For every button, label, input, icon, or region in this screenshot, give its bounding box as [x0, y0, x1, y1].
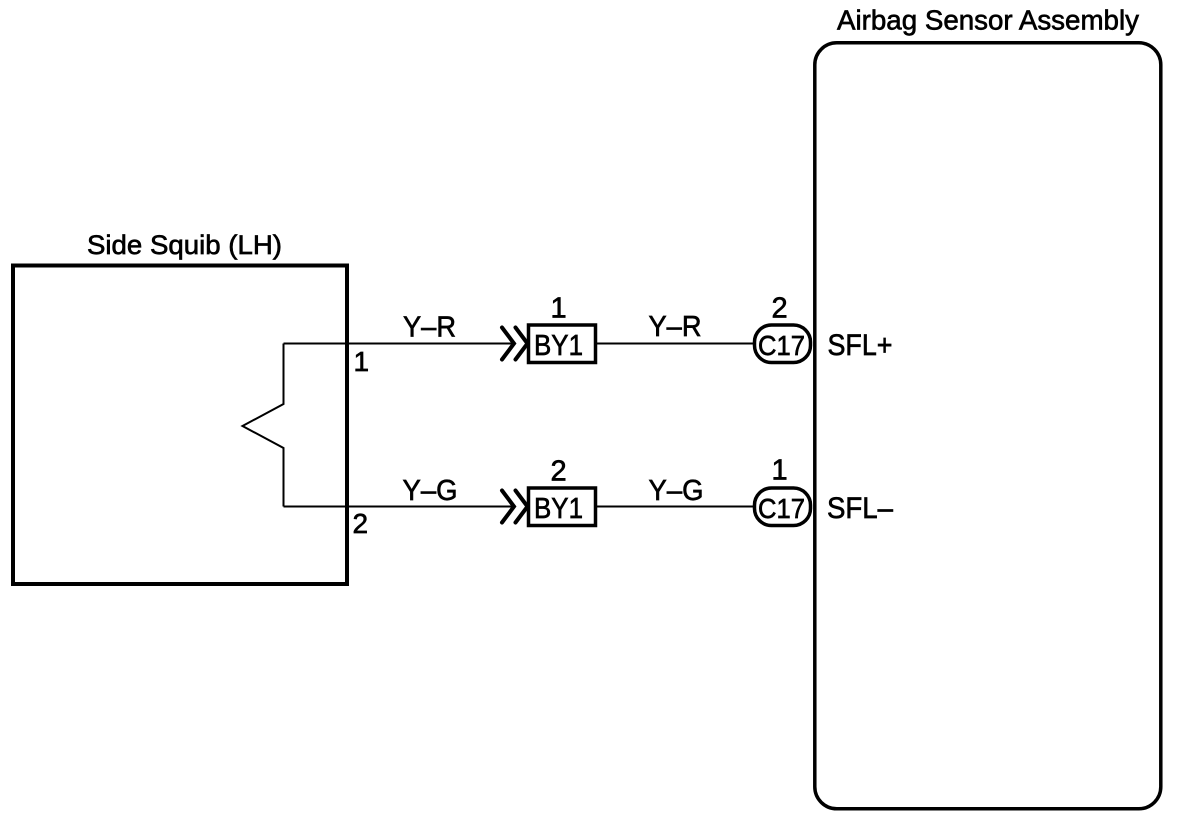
svg-text:Y–G: Y–G	[403, 475, 458, 507]
svg-text:BY1: BY1	[534, 330, 583, 362]
svg-text:SFL+: SFL+	[828, 329, 893, 362]
svg-text:BY1: BY1	[534, 493, 583, 525]
svg-text:Side Squib (LH): Side Squib (LH)	[87, 230, 282, 260]
svg-text:1: 1	[772, 455, 788, 487]
svg-text:1: 1	[354, 346, 370, 377]
svg-text:C17: C17	[758, 330, 805, 361]
svg-text:2: 2	[772, 293, 788, 325]
svg-text:C17: C17	[758, 493, 805, 524]
svg-text:2: 2	[353, 508, 369, 539]
svg-text:1: 1	[551, 293, 567, 325]
svg-text:2: 2	[551, 456, 567, 488]
svg-text:Y–G: Y–G	[649, 475, 704, 507]
svg-text:SFL–: SFL–	[827, 492, 893, 525]
svg-text:Airbag Sensor Assembly: Airbag Sensor Assembly	[837, 5, 1139, 36]
svg-text:Y–R: Y–R	[649, 311, 702, 343]
svg-text:Y–R: Y–R	[403, 312, 456, 344]
